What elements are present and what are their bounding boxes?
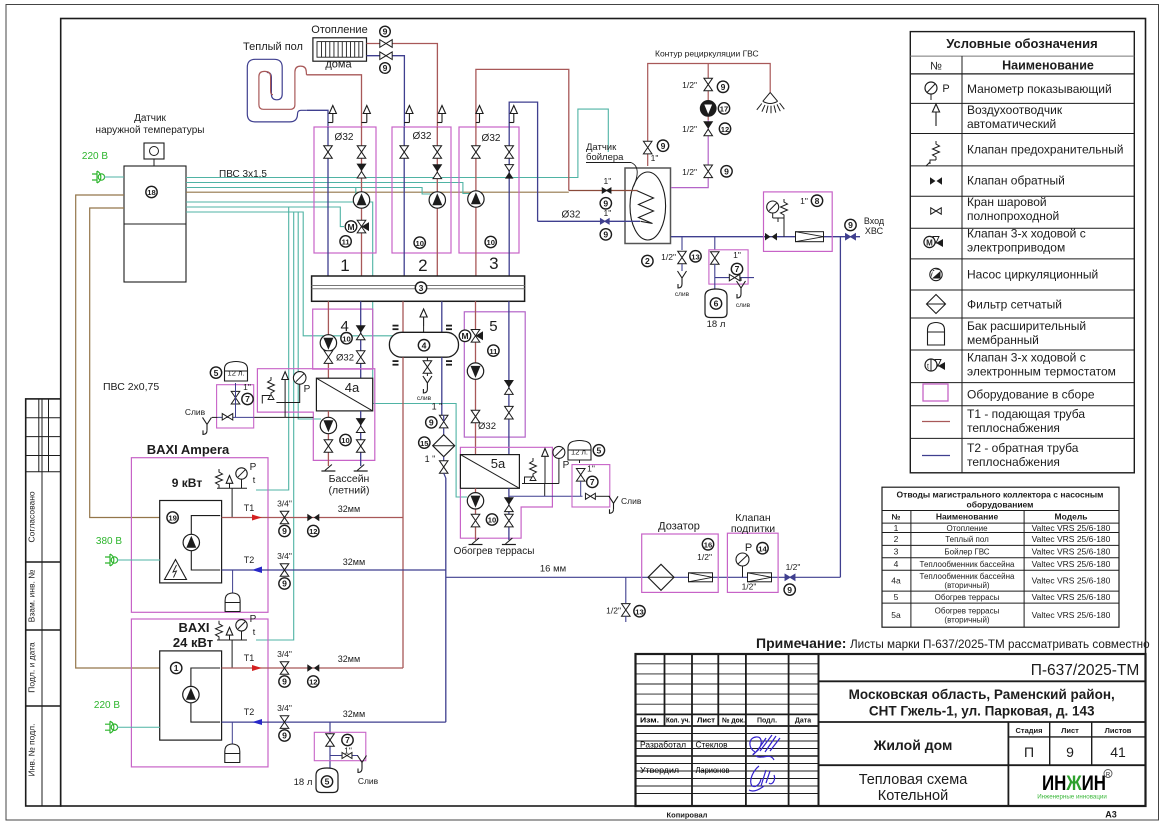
svg-text:Взам. инв. №: Взам. инв. № — [27, 570, 37, 623]
expansion tank 18l heating N5 — [294, 768, 338, 793]
expansion tank 12l 5a N5 — [568, 441, 605, 464]
stamp label Согласовано — [27, 491, 37, 542]
svg-text:М: М — [926, 238, 933, 247]
pipe T2 tank return — [538, 220, 640, 222]
pump group3 N10 — [468, 191, 484, 207]
label 32мм T2 9kW — [343, 557, 365, 567]
svg-text:теплоснабжения: теплоснабжения — [967, 455, 1060, 469]
legend row оборудование в сборе — [923, 384, 1095, 402]
svg-text:1: 1 — [894, 523, 899, 533]
svg-text:Теплый пол: Теплый пол — [243, 41, 303, 53]
svg-text:1": 1" — [243, 382, 251, 392]
boiler 24kW internal loop — [191, 668, 220, 722]
valve T2 9kW — [277, 551, 292, 589]
air vent separator — [420, 309, 427, 332]
makeup branch pipe — [329, 722, 331, 768]
pipe group2 return — [403, 127, 405, 276]
boiler tank N2 — [625, 168, 671, 244]
svg-text:9: 9 — [282, 731, 287, 741]
svg-text:7: 7 — [345, 735, 350, 745]
label 32мм T2 24kW — [343, 709, 365, 719]
svg-text:А3: А3 — [1105, 810, 1117, 820]
svg-text:6: 6 — [714, 299, 719, 309]
svg-text:СНТ Гжель-1, ул. Парковая, д.: СНТ Гжель-1, ул. Парковая, д. 143 — [869, 704, 1095, 719]
svg-text:Разработал: Разработал — [640, 740, 686, 750]
control wire to boiler 24kW — [256, 212, 294, 640]
label BAXI Ampera — [147, 442, 230, 490]
wire radiator return T2 — [367, 56, 405, 127]
outdoor temperature sensor — [144, 143, 164, 166]
control wire to pump group1 — [356, 188, 358, 195]
group 1 box — [314, 127, 376, 253]
signature 2 — [749, 766, 775, 791]
svg-text:№ док.: № док. — [722, 717, 745, 725]
drain branch feed 13 — [606, 577, 645, 622]
svg-text:Ø32: Ø32 — [482, 133, 501, 144]
legend row насос циркуляционный — [930, 268, 1098, 282]
air vent group2 return — [404, 106, 413, 123]
legend row бак расширительный — [928, 319, 1087, 347]
pipe group4 return — [360, 301, 362, 378]
svg-text:12 л.: 12 л. — [228, 369, 245, 378]
svg-text:Бойлер ГВС: Бойлер ГВС — [944, 548, 989, 557]
label 220 В bottom — [94, 700, 120, 711]
check valve group4 — [356, 326, 365, 340]
legend row клапан 3-х ходовой с электроприводом — [924, 227, 1086, 255]
svg-text:Слив: Слив — [185, 407, 206, 417]
svg-text:ПВС 3х1,5: ПВС 3х1,5 — [219, 169, 267, 180]
control wire to boiler 9kW — [256, 207, 289, 490]
separator port ticks bottom — [393, 361, 453, 365]
svg-text:9: 9 — [383, 27, 388, 37]
valve group4 supply — [324, 351, 354, 364]
gauge 5a — [553, 446, 570, 483]
valve 1" tank supply — [600, 176, 611, 209]
svg-text:Обогрев террасы: Обогрев террасы — [935, 607, 1000, 616]
wire coil supply T1 — [307, 75, 362, 127]
svg-text:9: 9 — [603, 230, 608, 240]
shower head — [757, 92, 785, 113]
controller box U18 — [124, 166, 186, 282]
air vent group2 supply — [437, 106, 445, 123]
svg-text:Valtec VRS 25/6-180: Valtec VRS 25/6-180 — [1032, 559, 1111, 569]
svg-text:1/2": 1/2" — [606, 606, 621, 616]
stamp label Инв. № подл. — [27, 724, 37, 777]
svg-text:9: 9 — [282, 526, 287, 536]
air vent group1 return — [328, 106, 336, 123]
svg-text:Р: Р — [942, 83, 949, 95]
svg-text:П-637/2025-ТМ: П-637/2025-ТМ — [1031, 662, 1140, 679]
expansion tank 12l 4a N5 — [210, 362, 247, 382]
svg-text:Отводы магистрального коллекто: Отводы магистрального коллектора с насос… — [897, 490, 1104, 500]
svg-text:Дозатор: Дозатор — [658, 521, 700, 533]
svg-text:10: 10 — [486, 238, 494, 247]
expansion branch tank 18l — [709, 237, 754, 309]
valve T1 24kW — [277, 649, 292, 687]
svg-text:5: 5 — [894, 592, 899, 602]
svg-text:11: 11 — [342, 238, 351, 247]
group 4a box — [257, 369, 374, 461]
pipe end ticks бассейн — [321, 465, 367, 472]
title block stage columns — [1008, 722, 1145, 806]
safety group 4a line — [254, 416, 314, 418]
gauge feed valve — [736, 542, 768, 577]
pipe DHW supply from tank — [648, 64, 771, 167]
label контур рециркуляции ГВС — [655, 49, 759, 59]
group number 2 — [418, 256, 427, 275]
svg-text:Кол. уч.: Кол. уч. — [666, 718, 690, 725]
svg-text:5: 5 — [325, 777, 330, 787]
svg-text:Р: Р — [563, 460, 570, 471]
svg-text:Слив: Слив — [621, 496, 642, 506]
legend row воздухоотводчик — [932, 103, 1062, 131]
svg-text:Бак расширительный: Бак расширительный — [967, 319, 1086, 333]
svg-text:Наименование: Наименование — [1002, 59, 1094, 73]
label обогрев террасы — [454, 545, 535, 557]
svg-text:41: 41 — [1110, 744, 1126, 760]
svg-text:10: 10 — [341, 436, 349, 445]
wire radiator supply T1 — [367, 44, 438, 128]
5a drain tap line — [509, 495, 583, 497]
valve 5a return — [505, 514, 514, 527]
svg-text:Клапан 3-х ходовой с: Клапан 3-х ходовой с — [967, 351, 1086, 365]
svg-text:Кран шаровой: Кран шаровой — [967, 195, 1047, 209]
label 380 В — [96, 536, 122, 547]
pipe 5a secondary return — [508, 488, 510, 540]
svg-text:9: 9 — [724, 167, 729, 177]
strainer unit box N8 — [764, 192, 833, 252]
title block frame — [636, 654, 1146, 806]
svg-text:9: 9 — [282, 579, 287, 589]
check valve 4a — [356, 419, 365, 433]
svg-text:Valtec VRS 25/6-180: Valtec VRS 25/6-180 — [1032, 592, 1111, 602]
air vent group3 return — [509, 106, 517, 123]
svg-text:Р: Р — [250, 462, 257, 473]
valves group1 isolating — [324, 146, 366, 159]
svg-text:Примечание:: Примечание: — [756, 635, 846, 651]
svg-text:Фильтр сетчатый: Фильтр сетчатый — [967, 298, 1062, 312]
signature 1 — [750, 735, 780, 760]
legend table frame — [910, 32, 1134, 473]
svg-text:9: 9 — [721, 82, 726, 92]
control wire to pump 5a — [186, 202, 467, 497]
svg-text:Ø32: Ø32 — [335, 132, 354, 143]
wire power brown to 24kW boiler — [76, 195, 160, 668]
check valve group1 — [357, 164, 366, 178]
svg-text:1/2": 1/2" — [786, 562, 801, 572]
label 1" 8 — [800, 195, 823, 206]
svg-text:Т1 - подающая труба: Т1 - подающая труба — [967, 407, 1085, 421]
svg-text:8: 8 — [815, 196, 820, 206]
svg-text:Модель: Модель — [1055, 512, 1088, 522]
svg-text:BAXI: BAXI — [178, 620, 209, 635]
air vent 4a — [282, 372, 289, 418]
svg-text:(летний): (летний) — [329, 485, 370, 497]
collector table header — [882, 490, 1119, 628]
svg-text:32мм: 32мм — [338, 654, 360, 664]
svg-text:№: № — [892, 513, 901, 522]
safety valve 4a — [262, 377, 274, 404]
filter return trunk N15 — [419, 435, 455, 464]
svg-text:15: 15 — [420, 439, 429, 448]
3-way valve group5 — [459, 330, 499, 357]
svg-text:дома: дома — [325, 59, 352, 71]
svg-text:Valtec VRS 25/6-180: Valtec VRS 25/6-180 — [1032, 547, 1111, 557]
group number 5 — [489, 318, 497, 335]
gauge strainer unit — [767, 201, 784, 237]
svg-text:7: 7 — [590, 477, 595, 487]
svg-text:220 В: 220 В — [94, 700, 120, 711]
svg-text:32мм: 32мм — [338, 504, 360, 514]
pipe T1 into tank — [569, 190, 638, 192]
valves group3 isolating — [472, 146, 514, 159]
svg-text:Утвердил: Утвердил — [640, 765, 679, 775]
svg-text:Инженерные инновации: Инженерные инновации — [1037, 794, 1107, 801]
svg-text:автоматический: автоматический — [967, 117, 1056, 131]
pipe feed 16mm — [446, 576, 841, 578]
pump group4 N10 — [320, 333, 352, 352]
svg-text:Обогрев террасы: Обогрев террасы — [935, 593, 1000, 602]
svg-text:Вход: Вход — [864, 216, 885, 226]
pipe group1 supply — [361, 127, 363, 276]
boiler 9kW top fittings — [216, 462, 257, 518]
dozator box N16 — [642, 521, 719, 593]
collector table rows — [882, 523, 1119, 625]
svg-text:Дата: Дата — [795, 718, 811, 725]
svg-text:1/2": 1/2" — [661, 252, 676, 262]
group number 4 — [341, 318, 349, 335]
pump boiler 24kW — [183, 686, 199, 702]
svg-text:полнопроходной: полнопроходной — [967, 209, 1059, 223]
svg-text:№: № — [930, 61, 942, 73]
pipe group5 return — [508, 301, 510, 454]
4a drain box — [217, 382, 254, 428]
group 4 box — [313, 309, 373, 369]
svg-text:Ларионов: Ларионов — [696, 765, 730, 775]
svg-text:Клапан обратный: Клапан обратный — [967, 174, 1065, 188]
valve radiator return — [380, 52, 393, 73]
svg-text:3: 3 — [419, 283, 424, 293]
svg-text:ИНЖИН: ИНЖИН — [1042, 772, 1106, 795]
svg-text:Жилой дом: Жилой дом — [873, 737, 953, 753]
svg-text:Т1: Т1 — [244, 503, 255, 513]
valve group5 return — [505, 406, 514, 419]
label бассейн летний — [329, 473, 370, 497]
pipe separator return to collector — [441, 301, 443, 332]
pipe 5a secondary supply — [475, 488, 477, 540]
svg-text:9: 9 — [282, 677, 287, 687]
svg-text:Ø32: Ø32 — [413, 131, 432, 142]
svg-text:5: 5 — [489, 318, 497, 335]
boiler 24kW unit N1 — [160, 651, 222, 740]
svg-text:220 В: 220 В — [82, 151, 108, 162]
pipe T2 24kW — [222, 721, 446, 723]
svg-text:Контур рециркуляции ГВС: Контур рециркуляции ГВС — [655, 49, 759, 59]
makeup branch drain — [330, 752, 379, 786]
svg-text:3/4": 3/4" — [277, 649, 292, 659]
svg-text:П: П — [1024, 744, 1034, 760]
label ПВС 3х1,5 — [219, 169, 267, 180]
check valve group3 — [505, 165, 514, 179]
separator drain — [417, 357, 432, 402]
valve T1 9kW — [277, 499, 292, 537]
label 2 boiler tank — [642, 255, 653, 266]
svg-text:ХВС: ХВС — [865, 226, 884, 236]
5a drain box — [572, 464, 610, 508]
water meter ХВС — [796, 232, 824, 242]
legend row Т2 — [922, 441, 1079, 469]
svg-text:18 л: 18 л — [707, 319, 726, 330]
pump 4a N10 — [320, 417, 351, 445]
legend title — [930, 36, 1098, 73]
pipe group3 supply — [476, 69, 569, 276]
check valve ХВС — [765, 233, 777, 241]
title block left grid — [636, 654, 819, 806]
filter dozator — [648, 564, 674, 590]
left stamp column — [26, 399, 61, 806]
legend row Т1 — [922, 407, 1085, 435]
svg-text:14: 14 — [758, 544, 767, 553]
valve radiator supply — [380, 26, 393, 47]
control wire to M-valve group1 — [186, 207, 344, 227]
svg-text:подпитки: подпитки — [731, 523, 775, 535]
svg-text:1": 1" — [587, 464, 595, 474]
label T1 9kW — [244, 503, 262, 521]
svg-text:9: 9 — [661, 141, 666, 151]
svg-text:24 кВт: 24 кВт — [173, 635, 213, 650]
valves group2 isolating — [400, 146, 442, 159]
svg-text:Клапан 3-х ходовой с: Клапан 3-х ходовой с — [967, 227, 1086, 241]
valve return trunk — [426, 402, 448, 435]
svg-text:18: 18 — [147, 188, 155, 197]
label 11 group1 — [340, 236, 351, 247]
boiler 9kW internal loop — [191, 516, 220, 570]
svg-text:M: M — [461, 331, 468, 341]
feed valve box N14 — [727, 533, 778, 592]
warning triangle 9kW — [165, 560, 187, 580]
svg-text:мембранный: мембранный — [967, 333, 1039, 347]
svg-text:5а: 5а — [491, 456, 506, 471]
svg-text:13: 13 — [691, 253, 699, 262]
safety group 5a base — [522, 484, 559, 497]
heat exchanger 4a — [316, 378, 372, 411]
label T2 24kW — [244, 707, 262, 725]
svg-text:Слив: Слив — [358, 776, 379, 786]
svg-text:19: 19 — [168, 514, 176, 523]
svg-text:3/4": 3/4" — [277, 499, 292, 509]
svg-text:Подл.: Подл. — [757, 718, 777, 725]
svg-text:18 л: 18 л — [294, 777, 313, 788]
svg-text:1: 1 — [340, 256, 349, 275]
valve return trunk lower — [439, 461, 448, 478]
svg-text:Обогрев террасы: Обогрев террасы — [454, 545, 535, 557]
svg-text:t: t — [927, 364, 929, 371]
svg-text:Датчик: Датчик — [134, 113, 166, 124]
svg-text:Р: Р — [745, 542, 752, 554]
pipe boiler supply trunk T1 — [402, 357, 404, 668]
valve 5a supply — [471, 514, 480, 527]
pipe group3 return — [509, 102, 537, 276]
svg-text:теплоснабжения: теплоснабжения — [967, 421, 1060, 435]
label T1 24kW — [244, 653, 262, 671]
label отопление дома — [311, 24, 367, 71]
svg-text:12 л.: 12 л. — [571, 448, 588, 457]
svg-text:Р: Р — [250, 614, 257, 625]
pipe group5 supply — [475, 301, 477, 454]
svg-text:слив: слив — [417, 395, 432, 402]
svg-text:Оборудование в сборе: Оборудование в сборе — [967, 388, 1095, 402]
wire cold water drop to feed — [839, 237, 841, 578]
label 32мм T1 9kW — [338, 504, 360, 514]
svg-text:16 мм: 16 мм — [540, 564, 566, 575]
legend row клапан 3-х ходовой с электронным термостатом — [925, 351, 1116, 379]
group 5a box — [460, 447, 552, 538]
svg-text:Valtec VRS 25/6-180: Valtec VRS 25/6-180 — [1032, 523, 1111, 533]
svg-text:2: 2 — [418, 256, 427, 275]
svg-text:Теплообменник бассейна: Теплообменник бассейна — [920, 572, 1015, 581]
svg-text:Valtec VRS 25/6-180: Valtec VRS 25/6-180 — [1032, 610, 1111, 620]
svg-text:M: M — [347, 222, 354, 232]
group 2 box — [392, 127, 451, 253]
expansion tank boiler 9kW — [225, 570, 240, 612]
wire coil return T2 — [307, 110, 328, 127]
valve DHW riser — [643, 140, 668, 163]
pump recirculation N17 — [700, 101, 729, 117]
label 10 group3 — [485, 236, 496, 247]
svg-text:12: 12 — [721, 125, 729, 134]
svg-text:9: 9 — [1066, 744, 1074, 760]
pipe cold water ХВС — [671, 236, 860, 238]
svg-text:4: 4 — [422, 340, 427, 350]
title block doc number — [819, 662, 1146, 681]
svg-text:1/2": 1/2" — [682, 124, 697, 134]
svg-text:7: 7 — [245, 394, 250, 404]
boiler BAXI Ampera box — [131, 458, 268, 613]
svg-text:9: 9 — [848, 220, 853, 230]
air vent 5a — [542, 449, 549, 484]
control wire to pump group3 — [186, 183, 470, 194]
title block object name — [819, 737, 1146, 804]
expansion tank 18l ГВС N6 — [705, 289, 727, 330]
group 3 box — [459, 127, 519, 253]
control wire to M-valve group5 — [186, 212, 456, 336]
svg-text:Согласовано: Согласовано — [27, 491, 37, 542]
svg-text:32мм: 32мм — [343, 709, 365, 719]
svg-text:380 В: 380 В — [96, 536, 122, 547]
air vent group1 supply — [362, 106, 371, 123]
group number 3 — [489, 254, 498, 273]
svg-text:(вторичный): (вторичный) — [944, 616, 989, 625]
svg-text:Р: Р — [304, 384, 311, 395]
control wire to pump 4a — [298, 212, 321, 419]
label датчик бойлера — [586, 142, 637, 187]
label 32мм T1 24kW — [338, 654, 360, 664]
svg-text:1: 1 — [174, 663, 179, 673]
hydraulic separator N4 — [389, 332, 458, 357]
pipe T1 24kW — [222, 667, 403, 669]
label BAXI 24кВт — [173, 620, 213, 650]
stamp label Подл. и дата — [27, 642, 37, 693]
legend row кран шаровой — [931, 195, 1059, 223]
svg-text:3/4": 3/4" — [277, 551, 292, 561]
svg-text:слив: слив — [675, 291, 690, 298]
drain branch 13 — [661, 237, 701, 298]
logo ИНЖИН — [1037, 770, 1112, 801]
air vent group3 supply — [476, 106, 483, 123]
svg-text:3: 3 — [894, 547, 899, 557]
svg-text:Изм.: Изм. — [640, 718, 659, 725]
svg-text:наружной температуры: наружной температуры — [96, 125, 205, 136]
